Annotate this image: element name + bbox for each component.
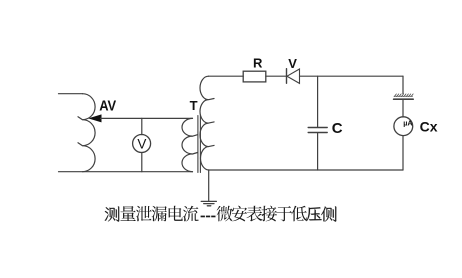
capacitor C plates [308,128,327,133]
wire voltmeter top branch [141,118,143,134]
diode V cathode bar [286,69,288,84]
caption text 测量泄漏电流 [105,206,199,222]
bottom rail ground junction to Cx branch [209,169,404,171]
wire to ground [208,170,210,201]
wire resistor to diode [266,75,287,77]
wire microammeter to bottom rail [402,136,404,170]
transformer T secondary winding [200,76,214,170]
caption text 微安表接于低压侧 [217,206,337,222]
wire capacitor C bottom branch [317,133,319,170]
wire test object to microammeter [402,100,404,117]
wire AV bottom lead and bottom rail to transformer primary [59,171,193,173]
wire right branch down to test object [402,76,404,93]
wire diode to top-right corner [300,75,404,77]
test object Cx hatched electrode [394,94,413,97]
svg-text:µA: µA [403,118,412,127]
wiper arrow of AV [90,115,101,122]
diode V triangle [287,69,300,83]
svg-text:V: V [137,136,146,151]
wire voltmeter bottom branch [141,153,143,172]
svg-text:T: T [190,98,198,113]
microammeter circle [394,117,413,136]
voltmeter V circle [133,135,151,153]
svg-text:Cx: Cx [420,119,438,135]
svg-text:R: R [253,56,263,71]
resistor R [243,71,266,82]
caption dashes [201,216,216,218]
ground symbol [201,201,216,205]
autotransformer AV winding [78,94,95,172]
transformer T core [198,116,201,173]
svg-text:AV: AV [99,97,116,114]
wire wiper to transformer primary [101,117,193,119]
svg-text:C: C [332,120,343,137]
wire capacitor C top branch [317,76,319,127]
test object Cx lower electrode [394,98,414,100]
wire AV top-left lead [59,93,83,95]
wire secondary top to resistor [209,75,244,77]
svg-text:V: V [288,56,297,71]
transformer T primary winding [182,118,198,171]
